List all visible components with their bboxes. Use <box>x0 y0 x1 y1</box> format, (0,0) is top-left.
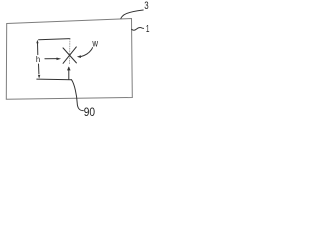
svg-text:w: w <box>92 37 99 49</box>
svg-text:3: 3 <box>144 0 148 12</box>
svg-text:90: 90 <box>84 105 96 119</box>
svg-text:1: 1 <box>146 23 150 35</box>
svg-text:h: h <box>36 54 41 64</box>
